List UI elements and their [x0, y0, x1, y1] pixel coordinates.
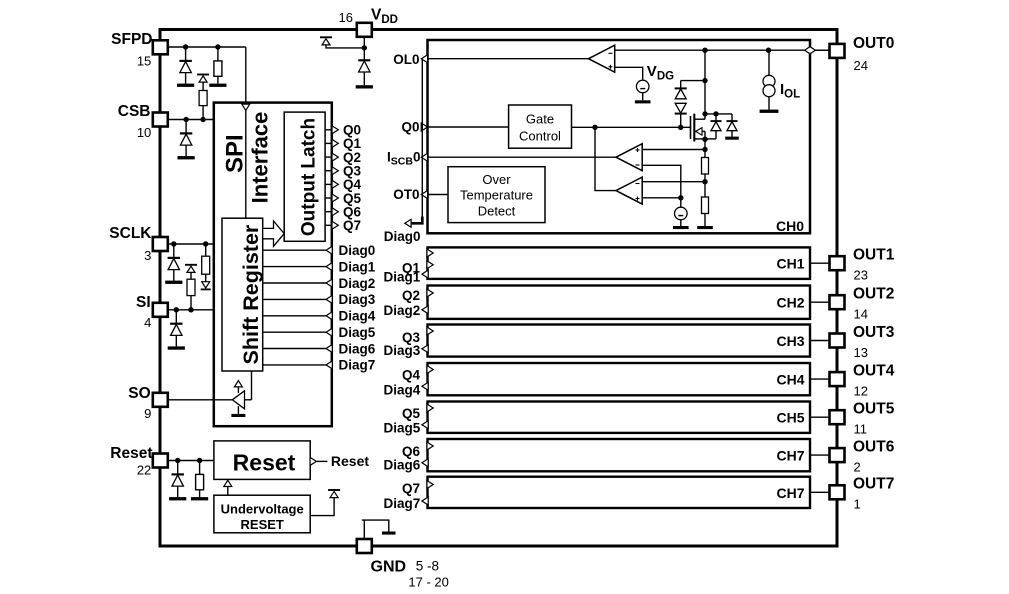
svg-text:Reset: Reset — [233, 450, 296, 476]
svg-text:23: 23 — [854, 268, 868, 283]
block: CH0 — [428, 40, 811, 233]
svg-text:Diag6: Diag6 — [384, 458, 421, 473]
svg-text:Temperature: Temperature — [460, 188, 533, 203]
svg-text:Diag0: Diag0 — [384, 229, 421, 244]
svg-text:Diag7: Diag7 — [339, 358, 376, 373]
svg-text:SI: SI — [136, 294, 151, 311]
op-amp U4 (short-circuit comparator) — [616, 144, 642, 171]
node: CSB junction 1 — [183, 117, 188, 122]
svg-text:CH5: CH5 — [776, 410, 804, 426]
svg-text:CH7: CH7 — [776, 485, 804, 501]
resistor R2 (SFPD/CSB pull) with rail symbol — [197, 75, 209, 120]
pin OUT0 24 — [830, 44, 845, 58]
diodes D7/D8 (gate-drain clamp) — [675, 81, 687, 128]
block: Gate Control — [509, 105, 572, 148]
svg-text:OT0: OT0 — [393, 187, 419, 202]
svg-text:11: 11 — [854, 422, 868, 437]
svg-text:GND: GND — [371, 559, 407, 576]
svg-text:OUT0: OUT0 — [853, 35, 894, 52]
wire: gate row — [572, 126, 691, 128]
svg-text:Q5: Q5 — [402, 406, 421, 421]
diode D5 (Reset ESD) — [169, 461, 186, 501]
svg-text:Diag4: Diag4 — [384, 382, 421, 397]
node: SI junction 1 — [174, 307, 179, 312]
arrowhead into SPI box — [242, 104, 250, 110]
block: Shift Register — [222, 218, 263, 371]
wire: gate to U5 output — [595, 127, 616, 190]
port diamond OUT0 — [805, 47, 816, 54]
wire: CSB row — [168, 119, 214, 121]
node: Reset junction 2 — [197, 458, 202, 463]
svg-text:Diag5: Diag5 — [384, 420, 421, 435]
svg-text:2: 2 — [854, 459, 861, 474]
block: CH6 (labelled CH7) — [428, 439, 811, 471]
source VDG — [635, 80, 651, 103]
wire: OL0 — [428, 58, 589, 60]
wire: sense comparator top input — [642, 149, 705, 151]
current source IOL — [760, 50, 779, 113]
port OT0 — [421, 191, 427, 199]
svg-text:Q0: Q0 — [401, 119, 419, 134]
node: SCLK junction 1 — [171, 241, 176, 246]
svg-text:Diag5: Diag5 — [339, 325, 376, 340]
wire: U4 bottom input to ref — [642, 165, 681, 207]
svg-text:15: 15 — [137, 53, 151, 68]
wire: drain line — [704, 50, 706, 119]
svg-text:5 -8: 5 -8 — [416, 559, 439, 574]
block: SPI Interface — [214, 103, 332, 427]
svg-text:VDG: VDG — [647, 63, 674, 82]
wire: OT0 — [428, 194, 449, 196]
labels Q0-Q7 — [343, 123, 362, 234]
pin OUT3 13 — [830, 334, 845, 348]
node: sense tap 1 — [702, 147, 707, 152]
op-amp U5 (gate feedback comparator) — [616, 177, 642, 204]
wire: UV to Reset — [227, 487, 229, 495]
pin CSB 10 — [153, 113, 168, 127]
node: gate ctl out — [592, 125, 597, 130]
tri-state buffer U2 (SO driver) — [231, 371, 251, 417]
Q0-Q7 output stubs and arrows — [325, 126, 338, 230]
resistor R3 (SCLK pulldown to rail) — [201, 244, 211, 289]
svg-text:OUT2: OUT2 — [853, 286, 894, 303]
svg-text:Diag4: Diag4 — [339, 309, 376, 324]
wire: SCLK row — [168, 243, 214, 245]
wire: Reset row — [168, 460, 214, 462]
pin OUT1 23 — [830, 256, 845, 270]
svg-text:CH2: CH2 — [776, 295, 804, 311]
pin OUT2 14 — [830, 295, 845, 309]
source Vref — [673, 207, 689, 229]
wire: SI row — [168, 309, 214, 311]
wire: comparator top input to OUT0 rail — [615, 49, 830, 51]
wire: comparator bottom input to VDG — [615, 67, 643, 80]
wire + ground (divider) — [704, 214, 706, 227]
wire: OUT5 — [810, 416, 830, 418]
svg-text:CSB: CSB — [118, 103, 151, 120]
svg-text:OUT6: OUT6 — [853, 438, 895, 455]
svg-text:Interface: Interface — [247, 112, 272, 204]
wire — [704, 174, 706, 197]
pin OUT4 12 — [830, 372, 845, 386]
svg-text:Shift Register: Shift Register — [239, 224, 263, 364]
block: Over Temperature Detect — [448, 167, 545, 223]
node: divider mid — [702, 179, 707, 184]
svg-text:14: 14 — [854, 307, 868, 322]
svg-text:Reset: Reset — [331, 453, 369, 469]
wire: OUT3 — [810, 340, 830, 342]
block: CH5 — [428, 402, 811, 433]
svg-text:Diag3: Diag3 — [384, 343, 421, 358]
diode D2 (CSB ESD) — [178, 120, 195, 160]
svg-text:OUT7: OUT7 — [853, 476, 894, 493]
svg-text:VDD: VDD — [371, 7, 398, 27]
block: CH3 — [428, 325, 811, 357]
pin SFPD 15 — [153, 40, 168, 54]
svg-text:SFPD: SFPD — [111, 31, 152, 48]
svg-text:Q4: Q4 — [402, 368, 421, 383]
wire: OUT0 to pin — [814, 49, 829, 51]
resistor R7 (sense divider bottom) — [702, 197, 709, 214]
block: CH2 — [428, 286, 811, 319]
block: CH1 — [428, 247, 811, 279]
pin OUT7 1 — [830, 485, 845, 499]
svg-text:Diag6: Diag6 — [339, 341, 376, 356]
svg-text:Output Latch: Output Latch — [299, 118, 320, 236]
diode D4 (SI ESD) — [168, 310, 185, 350]
svg-text:OL0: OL0 — [393, 52, 419, 67]
svg-text:Q7: Q7 — [402, 481, 420, 496]
diode D3 (SCLK ESD) — [165, 244, 182, 284]
wire: U5 bottom input — [642, 197, 681, 199]
svg-text:16: 16 — [339, 10, 353, 25]
block: Reset — [214, 441, 310, 480]
node: SFPD junction 1 — [183, 44, 188, 49]
resistor R1 (SFPD pulldown) — [209, 47, 226, 87]
block: CH4 — [428, 363, 811, 395]
ground bar (GND pin) — [382, 532, 396, 535]
svg-text:Undervoltage: Undervoltage — [221, 501, 304, 516]
wire: drain rail to diodes — [705, 113, 732, 115]
wire: UV to rail — [310, 498, 334, 516]
diode D1 (SFPD ESD) — [177, 47, 194, 87]
svg-text:13: 13 — [854, 345, 868, 360]
svg-text:12: 12 — [854, 383, 868, 398]
svg-text:OUT1: OUT1 — [853, 247, 895, 264]
block: Undervoltage RESET — [214, 495, 310, 533]
svg-text:22: 22 — [137, 463, 151, 478]
wire: ISCB0 — [428, 156, 617, 158]
svg-text:CH3: CH3 — [776, 333, 804, 349]
svg-text:17 - 20: 17 - 20 — [408, 575, 448, 590]
wire: OUT1 — [810, 262, 830, 264]
svg-text:Q2: Q2 — [402, 288, 420, 303]
svg-text:CH1: CH1 — [776, 255, 804, 271]
wire: clamp connect — [681, 80, 705, 82]
wire: comparator 3 top input — [642, 181, 705, 183]
svg-text:OUT3: OUT3 — [853, 324, 895, 341]
svg-text:Diag1: Diag1 — [339, 259, 376, 274]
wire: OUT2 — [810, 301, 830, 303]
svg-text:Diag3: Diag3 — [339, 292, 376, 307]
wire: OUT7 — [810, 491, 830, 493]
svg-text:Control: Control — [519, 129, 561, 144]
pin SI 4 — [153, 303, 168, 317]
node: ref node — [678, 195, 683, 200]
svg-text:IOL: IOL — [780, 81, 800, 100]
node: VDD junction — [362, 45, 367, 50]
wire: source node — [705, 138, 716, 140]
svg-text:SPI: SPI — [222, 134, 249, 173]
pin OUT5 11 — [830, 410, 845, 424]
diode D9 (body diode) — [711, 114, 722, 139]
svg-text:OUT5: OUT5 — [853, 401, 895, 418]
labels Diag0-Diag7 — [339, 243, 376, 373]
wire: SFPD row — [168, 46, 246, 48]
wire: GND internal — [363, 520, 365, 539]
svg-text:Detect: Detect — [478, 204, 516, 219]
svg-text:CH0: CH0 — [776, 218, 804, 234]
block: CH7 — [428, 477, 811, 508]
pin SCLK 3 — [153, 237, 168, 251]
svg-text:RESET: RESET — [241, 517, 284, 532]
svg-text:4: 4 — [144, 315, 151, 330]
block: Output Latch — [284, 112, 325, 241]
pin VDD 16 — [357, 23, 372, 37]
pin GND — [357, 539, 372, 553]
svg-text:Gate: Gate — [526, 112, 554, 127]
node: clamp tap — [702, 78, 707, 83]
pin Reset 22 — [153, 454, 168, 468]
block arrow: Shift Register to Output Latch — [263, 221, 285, 246]
svg-text:Over: Over — [482, 172, 511, 187]
node: Reset junction 1 — [175, 458, 180, 463]
diode D6 (VDD ESD) — [356, 60, 373, 88]
svg-text:SO: SO — [128, 385, 150, 402]
node: SCLK junction 2 — [203, 241, 208, 246]
svg-text:Diag1: Diag1 — [384, 269, 421, 284]
node: CSB junction 2 — [200, 117, 205, 122]
wire: OUT6 — [810, 454, 830, 456]
node: rail at IOL — [766, 48, 771, 53]
transistor Q1 (output NMOS) — [691, 114, 706, 142]
svg-text:OUT4: OUT4 — [853, 362, 895, 379]
pin OUT6 2 — [830, 448, 845, 462]
svg-text:Q7: Q7 — [343, 218, 361, 233]
svg-text:Diag0: Diag0 — [339, 243, 376, 258]
diode D10 (substrate diode to gnd) — [725, 114, 739, 140]
svg-text:1: 1 — [854, 497, 861, 512]
wire: Diag0 port bus — [421, 59, 423, 224]
pin SO 9 — [153, 393, 168, 407]
resistor R4 (SCLK/SI pull) with rail symbol — [185, 265, 197, 310]
svg-text:Reset: Reset — [110, 445, 152, 462]
wire: SFPD to SPI top — [245, 47, 247, 218]
wire: SO row — [168, 399, 233, 401]
svg-text:Diag2: Diag2 — [339, 276, 376, 291]
svg-text:3: 3 — [144, 248, 151, 263]
Diag0-Diag7 lines and arrows — [263, 246, 333, 369]
port OL0 — [421, 55, 427, 63]
svg-text:9: 9 — [144, 406, 151, 421]
node: SI junction 2 — [188, 307, 193, 312]
rail symbol at VDD — [320, 37, 332, 45]
resistor R5 (Reset pull) — [191, 461, 208, 501]
node: SFPD junction 2 — [215, 44, 220, 49]
wire: VDD rail stub — [326, 45, 364, 48]
svg-text:Diag2: Diag2 — [384, 303, 421, 318]
wire: Reset output — [316, 460, 327, 462]
svg-text:SCLK: SCLK — [109, 225, 152, 242]
resistor R6 (sense divider top) — [702, 158, 709, 175]
svg-text:24: 24 — [854, 58, 868, 73]
svg-text:CH7: CH7 — [776, 448, 804, 464]
wire: outer boundary — [160, 30, 837, 547]
op-amp U3 (open load comparator) — [589, 45, 615, 72]
arrowhead: Reset output — [310, 457, 316, 465]
wire: VDD down — [363, 37, 365, 61]
port ISCB0 — [421, 153, 427, 161]
svg-text:10: 10 — [137, 125, 151, 140]
node: clamp-gate — [678, 125, 683, 130]
svg-text:Diag7: Diag7 — [384, 496, 421, 511]
node: rail at drain — [702, 48, 707, 53]
svg-text:CH4: CH4 — [776, 372, 804, 388]
port Q0 — [421, 123, 427, 131]
wire: Q0 — [428, 126, 509, 128]
wire: OUT4 — [810, 378, 830, 380]
svg-text:ISCB0: ISCB0 — [387, 150, 420, 168]
